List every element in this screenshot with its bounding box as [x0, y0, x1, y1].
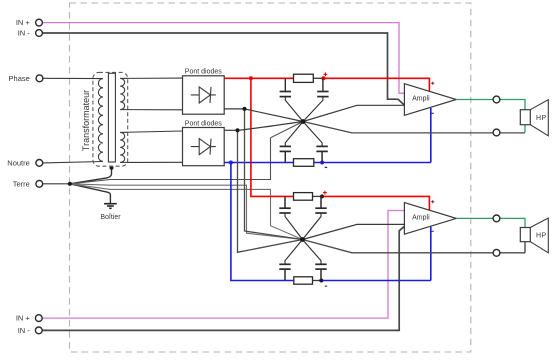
label - amp U1	[431, 112, 434, 114]
wire secondary1 bottom to bridge PD1	[120, 109, 182, 111]
capacitor C8	[303, 240, 327, 281]
resistor R1 (+rail ch1)	[294, 74, 314, 82]
wire IN- bottom (dark) to amp U2 - input	[43, 226, 405, 330]
wire terre net C to 0V node of channel 2	[70, 184, 303, 240]
transformer primary winding	[98, 79, 103, 162]
transformer secondary winding bottom	[120, 132, 125, 162]
wire Terre to junction	[43, 183, 70, 185]
terminal output ch2 +	[493, 215, 500, 222]
wire IN- top (dark) from terminal to amp U1 - input	[43, 33, 405, 105]
enclosure (boitier) dashed border	[70, 3, 471, 352]
svg-text:Boîtier: Boîtier	[100, 214, 121, 221]
svg-text:IN -: IN -	[18, 29, 31, 38]
capacitor C3	[280, 122, 303, 163]
capacitor C6	[303, 196, 327, 239]
wire node1 to speaker HP1 return	[303, 122, 525, 133]
wire speaker HP2 bottom	[524, 242, 526, 253]
wire 0V tie B to node 2	[238, 130, 303, 252]
capacitor C2	[303, 78, 329, 121]
node red junction	[249, 76, 253, 80]
ground Boitier symbol	[104, 204, 117, 209]
wire -V rail channel 1 (blue) bridge PD2 to amp U1	[224, 162, 431, 164]
wire terre to chassis ground	[70, 184, 111, 203]
svg-text:HP: HP	[536, 115, 547, 122]
node transformer chassis tap	[110, 166, 114, 170]
wire terre net B to 0V node of channel 2	[70, 184, 303, 240]
terminal IN+ top	[36, 19, 43, 26]
node blue junction	[229, 161, 233, 165]
terminal output ch1 +	[493, 96, 500, 103]
label - ch1 rail	[325, 166, 328, 168]
svg-text:Noutre: Noutre	[7, 158, 30, 167]
svg-text:Ampli: Ampli	[412, 96, 430, 103]
svg-text:HP: HP	[536, 233, 547, 240]
node -V ch1	[320, 161, 324, 165]
wire amp U1 -V feed (blue)	[430, 108, 432, 163]
svg-text:Phase: Phase	[9, 74, 30, 83]
svg-text:IN +: IN +	[16, 314, 31, 323]
node B bridge2 plus	[235, 128, 239, 132]
node +V ch1	[321, 76, 325, 80]
node 0V channel 1	[301, 119, 306, 124]
wire amp U1 output (green) to speaker HP1	[456, 100, 525, 110]
wire terre to transformer chassis tap	[70, 168, 112, 184]
label + amp U1	[431, 82, 434, 85]
wire secondary2 top to bridge PD2	[120, 131, 182, 132]
capacitor C5	[279, 196, 302, 239]
terminal Phase	[36, 75, 43, 82]
transformer core	[108, 73, 115, 162]
label + ch1 rail	[324, 72, 328, 76]
label + ch2 rail	[323, 191, 327, 195]
wire secondary1 top to bridge PD1	[120, 77, 182, 79]
wire bridge PD2 plus to 0V	[224, 129, 237, 131]
speaker HP1	[520, 100, 548, 136]
wire node1 to amp U1 reference	[303, 105, 404, 121]
svg-text:Ampli: Ampli	[412, 214, 430, 221]
op-amp U2	[404, 203, 456, 235]
wire node2 to speaker HP2 return	[303, 240, 526, 253]
node +V ch2	[320, 194, 324, 198]
wire amp U2 output (green) to speaker HP2	[456, 218, 525, 227]
label - amp U2	[431, 230, 434, 232]
node A bridge1 minus	[242, 107, 246, 111]
wire node2 to amp U2 reference	[303, 224, 405, 239]
terminal output ch1 -	[493, 129, 500, 136]
svg-text:Transformateur: Transformateur	[81, 90, 91, 151]
op-amp U1	[404, 84, 456, 116]
wire IN+ top (magenta) from terminal to amp U1 + input	[43, 23, 405, 94]
resistor R3 (+rail ch2)	[294, 193, 313, 201]
transformer T1 dashed outline	[93, 72, 128, 166]
speaker HP2	[520, 218, 548, 253]
svg-text:Pont diodes: Pont diodes	[185, 120, 222, 127]
node 0V channel 2	[300, 237, 305, 242]
label - ch2 rail	[325, 285, 327, 287]
label + amp U2	[431, 200, 434, 203]
capacitor C7	[279, 240, 302, 281]
terminal IN- bottom	[35, 327, 42, 334]
wire Phase to transformer primary	[43, 77, 103, 79]
svg-text:Terre: Terre	[13, 179, 30, 188]
terminal Noutre	[36, 160, 43, 167]
resistor R2 (-rail ch1)	[294, 159, 314, 167]
capacitor C4	[303, 122, 328, 163]
bridge rectifier PD2	[183, 120, 225, 165]
transformer secondary winding top	[120, 78, 125, 109]
wire +V rail channel 1 (red) bridge PD1 to amp U1	[224, 77, 294, 79]
wire IN+ bottom (magenta) to amp U2 + input	[43, 211, 405, 319]
wire 0V tie B to node 1	[238, 122, 304, 131]
node -V ch2	[319, 279, 323, 283]
wire -V drop to channel 2 (blue)	[231, 163, 295, 281]
wire speaker HP1 bottom (green)	[524, 125, 526, 133]
capacitor C1	[280, 78, 303, 121]
terminal output ch2 -	[493, 249, 500, 256]
svg-text:Pont diodes: Pont diodes	[185, 69, 222, 76]
wire secondary2 bottom to bridge PD2	[120, 161, 182, 163]
terminal Terre	[36, 180, 43, 187]
terminal IN- top	[36, 30, 43, 37]
wire bridge PD1 minus to 0V	[224, 108, 244, 110]
wire Noutre to transformer primary bottom	[43, 162, 103, 163]
wire 0V tie A to node 2	[245, 109, 303, 240]
node terre junction	[68, 182, 72, 186]
terminal IN+ bottom	[35, 315, 42, 322]
bridge rectifier PD1	[183, 69, 225, 115]
wire 0V tie A to node 1	[245, 109, 304, 122]
resistor R4 (-rail ch2)	[294, 277, 313, 284]
svg-text:IN -: IN -	[18, 326, 31, 335]
wire amp U2 -V feed (blue)	[430, 227, 432, 281]
wire +V drop to channel 2 (red)	[251, 78, 295, 196]
svg-text:IN +: IN +	[16, 18, 31, 27]
wire terre net A to 0V node of channel 1	[70, 122, 303, 184]
